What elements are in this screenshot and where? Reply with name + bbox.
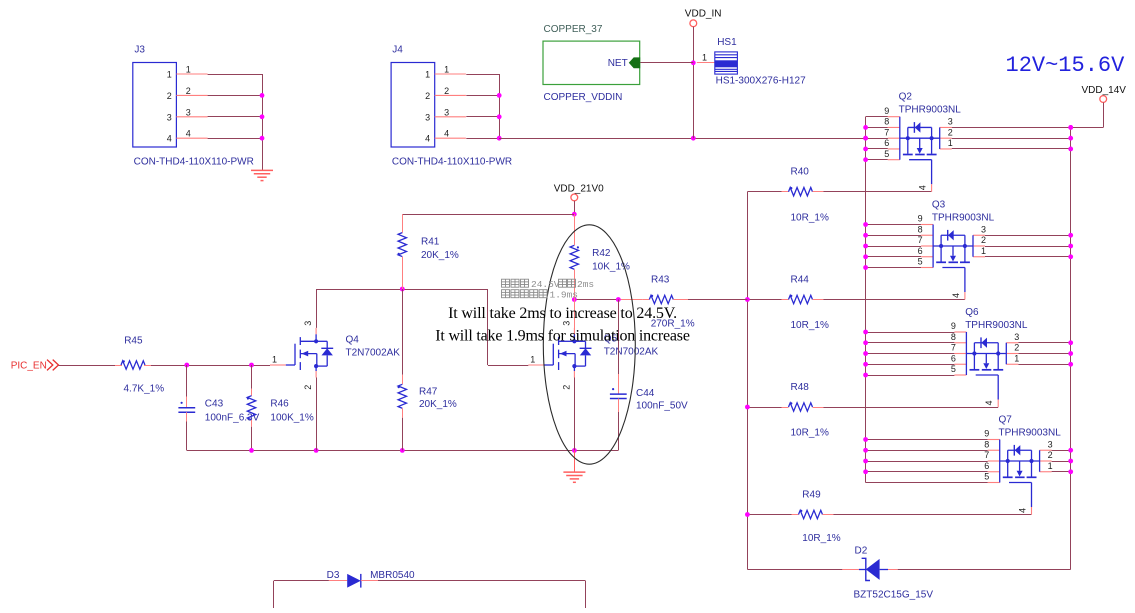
svg-text:It will take 1.9ms for simulat: It will take 1.9ms for simulation increa… <box>435 327 690 344</box>
svg-text:D2: D2 <box>855 545 868 556</box>
svg-text:PIC_EN: PIC_EN <box>11 361 47 372</box>
svg-text:Q6: Q6 <box>965 307 979 318</box>
svg-text:R46: R46 <box>270 399 289 410</box>
svg-text:1.9ms: 1.9ms <box>550 290 579 301</box>
svg-text:COPPER_37: COPPER_37 <box>544 24 603 35</box>
svg-text:R43: R43 <box>651 275 670 286</box>
svg-text:24.5V: 24.5V <box>531 279 560 290</box>
svg-text:C44: C44 <box>636 388 655 399</box>
svg-text:HS1-300X276-H127: HS1-300X276-H127 <box>716 76 806 87</box>
svg-text:T2N7002AK: T2N7002AK <box>604 347 659 358</box>
svg-text:R44: R44 <box>791 275 810 286</box>
svg-text:20K_1%: 20K_1% <box>421 250 459 261</box>
svg-text:R42: R42 <box>592 248 611 259</box>
svg-text:R48: R48 <box>791 382 810 393</box>
svg-text:R49: R49 <box>802 490 821 501</box>
svg-text:COPPER_VDDIN: COPPER_VDDIN <box>544 92 623 103</box>
svg-text:10R_1%: 10R_1% <box>791 212 829 223</box>
svg-text:20K_1%: 20K_1% <box>419 399 457 410</box>
svg-text:D3: D3 <box>327 570 340 581</box>
svg-text:NET: NET <box>608 58 628 69</box>
svg-text:10R_1%: 10R_1% <box>802 533 840 544</box>
svg-text:1: 1 <box>272 355 277 365</box>
svg-text:100nF_50V: 100nF_50V <box>636 401 688 412</box>
svg-text:R40: R40 <box>791 167 810 178</box>
svg-text:TPHR9003NL: TPHR9003NL <box>965 320 1028 331</box>
svg-text:J3: J3 <box>134 45 145 56</box>
svg-text:TPHR9003NL: TPHR9003NL <box>999 428 1062 439</box>
svg-text:C43: C43 <box>205 399 224 410</box>
svg-text:VDD_14V: VDD_14V <box>1082 85 1127 96</box>
svg-text:4.7K_1%: 4.7K_1% <box>124 384 165 395</box>
svg-text:Q4: Q4 <box>346 335 360 346</box>
svg-text:VDD_21V0: VDD_21V0 <box>554 184 604 195</box>
svg-text:T2N7002AK: T2N7002AK <box>346 348 401 359</box>
svg-text:R45: R45 <box>124 336 143 347</box>
svg-text:1: 1 <box>702 52 707 62</box>
svg-text:10R_1%: 10R_1% <box>791 428 829 439</box>
svg-text:It will take 2ms to increase t: It will take 2ms to increase to 24.5V. <box>448 305 677 322</box>
svg-text:Q2: Q2 <box>899 92 913 103</box>
svg-text:TPHR9003NL: TPHR9003NL <box>899 105 962 116</box>
svg-text:R41: R41 <box>421 237 440 248</box>
svg-text:VDD_IN: VDD_IN <box>685 9 722 20</box>
svg-text:1: 1 <box>530 355 535 365</box>
svg-text:R47: R47 <box>419 387 438 398</box>
svg-text:Q7: Q7 <box>999 415 1013 426</box>
svg-text:100K_1%: 100K_1% <box>270 412 313 423</box>
svg-text:BZT52C15G_15V: BZT52C15G_15V <box>854 589 934 600</box>
svg-text:10R_1%: 10R_1% <box>791 320 829 331</box>
svg-text:TPHR9003NL: TPHR9003NL <box>932 213 995 224</box>
svg-text:2ms: 2ms <box>577 279 594 290</box>
svg-text:Q3: Q3 <box>932 200 946 211</box>
svg-text:MBR0540: MBR0540 <box>370 570 415 581</box>
svg-text:12V~15.6V: 12V~15.6V <box>1006 53 1126 78</box>
svg-text:J4: J4 <box>392 45 403 56</box>
svg-text:HS1: HS1 <box>717 37 737 48</box>
